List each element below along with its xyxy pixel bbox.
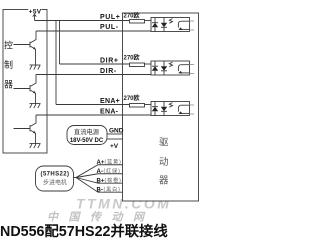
svg-text:PUL+: PUL+ xyxy=(100,14,121,21)
DC power supply box xyxy=(67,126,107,145)
svg-text:+V: +V xyxy=(110,143,119,150)
svg-text:ND556配57HS22并联接线: ND556配57HS22并联接线 xyxy=(0,222,168,240)
+5V supply label xyxy=(28,8,41,14)
ground Q3 xyxy=(30,144,41,149)
wire ENA+ (left of resistor) xyxy=(56,104,130,106)
wire PUL+ (left of resistor) xyxy=(35,20,130,22)
svg-text:PUL-: PUL- xyxy=(100,24,119,31)
motor wire A- xyxy=(76,174,123,178)
optocoupler U2 (DIR) xyxy=(151,61,190,75)
svg-text:B-: B- xyxy=(97,187,103,193)
opto U1 output stubs xyxy=(190,20,195,22)
svg-text:GND: GND xyxy=(109,127,124,134)
svg-text:+5V: +5V xyxy=(29,8,42,15)
driver box xyxy=(123,13,199,201)
wire DIR+ (left of resistor) xyxy=(60,63,130,65)
wire DIR+ (resistor to opto) xyxy=(145,63,152,65)
svg-text:器: 器 xyxy=(4,80,13,90)
svg-text:直流电源: 直流电源 xyxy=(74,127,100,136)
optocoupler U1 (PUL) xyxy=(151,18,190,32)
svg-text:DIR+: DIR+ xyxy=(100,58,119,65)
svg-text:中国传动网: 中国传动网 xyxy=(47,211,155,224)
+5V arrow xyxy=(33,14,37,16)
transistor Q1 xyxy=(14,31,37,65)
wire PUL- xyxy=(36,30,151,32)
svg-text:制: 制 xyxy=(4,59,13,70)
motor wire A+ xyxy=(74,165,123,178)
svg-text:控: 控 xyxy=(4,40,13,51)
resistor R2 270ohm (DIR) xyxy=(130,63,145,67)
svg-text:A-: A- xyxy=(97,169,103,175)
svg-text:18V-50V DC: 18V-50V DC xyxy=(70,138,104,144)
svg-text:270欧: 270欧 xyxy=(124,11,140,19)
svg-text:动: 动 xyxy=(159,157,169,168)
svg-text:(57HS22): (57HS22) xyxy=(41,171,70,177)
resistor R3 270ohm (ENA) xyxy=(130,104,145,108)
svg-text:270欧: 270欧 xyxy=(124,94,140,102)
svg-text:ENA-: ENA- xyxy=(100,109,119,116)
resistor R1 270ohm (PUL) xyxy=(130,20,145,24)
optocoupler U3 (ENA) xyxy=(151,102,190,116)
wire DIR- xyxy=(36,74,151,76)
opto U3 output stubs xyxy=(190,104,195,106)
wire ENA+ (resistor to opto) xyxy=(145,104,152,106)
svg-text:270欧: 270欧 xyxy=(124,54,140,62)
ground Q1 xyxy=(30,65,41,70)
svg-text:驱: 驱 xyxy=(159,138,169,149)
svg-text:器: 器 xyxy=(159,176,169,187)
wire +5V bus to ENA+ xyxy=(55,21,57,105)
opto U2 output stubs xyxy=(190,64,195,66)
motor wire B- xyxy=(76,178,123,193)
svg-text:步进电机: 步进电机 xyxy=(43,179,67,187)
svg-text:(黑白): (黑白) xyxy=(104,186,121,193)
svg-text:DIR-: DIR- xyxy=(100,68,117,75)
svg-text:(蓝黄): (蓝黄) xyxy=(105,159,122,166)
ground Q2 xyxy=(30,104,41,109)
transistor Q2 xyxy=(14,75,37,104)
controller box xyxy=(3,10,47,154)
wire +5V bus to DIR+ xyxy=(59,21,61,65)
wire GND xyxy=(107,133,123,135)
wire ENA- xyxy=(36,114,151,116)
motor wire B+ xyxy=(76,178,123,184)
stepper motor 57HS22 xyxy=(36,166,74,191)
wire PUL+ (resistor to opto) xyxy=(145,20,152,22)
svg-text:ENA+: ENA+ xyxy=(100,98,120,105)
transistor Q3 xyxy=(14,115,37,144)
svg-text:(红绿): (红绿) xyxy=(104,168,121,175)
svg-text:(棕橙): (棕橙) xyxy=(105,177,122,184)
wire +V xyxy=(107,138,123,140)
